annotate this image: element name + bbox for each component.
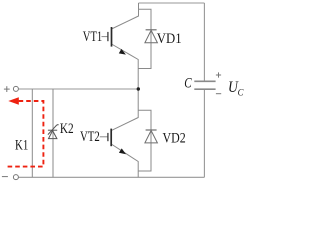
polarity plus of capacitor <box>216 72 221 77</box>
wire short-circuit branch K1 <box>31 89 33 177</box>
wire top DC bus rail <box>139 2 205 4</box>
wire middle (+) input rail to leg midpoint <box>19 88 139 90</box>
capacitor C <box>194 81 215 89</box>
wire VT2 emitter to bottom rail <box>111 144 138 177</box>
wire VT1 collector to top rail <box>112 3 139 29</box>
svg-text:VD1: VD1 <box>157 31 182 47</box>
wire fault current path (red dashed) <box>7 101 43 167</box>
terminal plus input <box>4 86 19 92</box>
diode VD2 <box>145 130 158 143</box>
svg-text:K1: K1 <box>15 137 28 153</box>
svg-text:VT2: VT2 <box>80 129 100 145</box>
svg-text:VT1: VT1 <box>83 29 102 45</box>
diode VD1 <box>145 30 158 43</box>
transistor VT1 (IGBT) <box>102 27 126 55</box>
transistor VT2 (IGBT) <box>100 129 126 155</box>
fault current direction arrow <box>8 97 18 104</box>
wire short-circuit branch K2 <box>52 89 54 177</box>
terminal minus input <box>2 175 19 180</box>
wire VD1 branch (cathode step and anode return) <box>138 9 151 68</box>
svg-text:K2: K2 <box>60 121 74 137</box>
svg-text:C: C <box>238 87 245 97</box>
wire VD2 branch (cathode step and anode return) <box>138 110 151 171</box>
wire right DC bus rail lower segment <box>203 89 205 177</box>
wire VT1 emitter to midpoint node <box>112 44 139 89</box>
wire VT2 collector to midpoint node <box>111 89 138 131</box>
node midpoint junction dot <box>137 87 140 90</box>
wire bottom DC bus rail <box>19 176 205 178</box>
polarity minus of capacitor <box>216 93 221 95</box>
wire right DC bus rail upper segment <box>203 3 205 81</box>
svg-text:VD2: VD2 <box>163 130 186 146</box>
svg-text:C: C <box>184 76 192 92</box>
diode K2 (short-circuit device) <box>48 125 59 139</box>
